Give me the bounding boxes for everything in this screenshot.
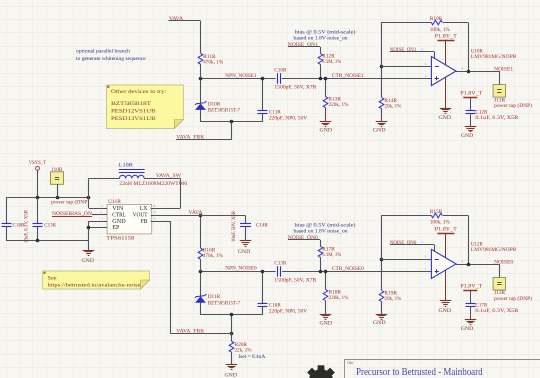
svg-text:TPS61158: TPS61158 bbox=[106, 236, 134, 242]
svg-text:3: 3 bbox=[424, 62, 426, 66]
svg-text:220k, 1%: 220k, 1% bbox=[329, 102, 350, 108]
svg-text:NOISE_ON1: NOISE_ON1 bbox=[390, 47, 417, 53]
svg-text:10uF, 6.3V, X5R: 10uF, 6.3V, X5R bbox=[25, 209, 30, 243]
svg-text:22k, 1%: 22k, 1% bbox=[235, 347, 253, 353]
svg-text:NOISE1: NOISE1 bbox=[494, 67, 513, 73]
svg-text:BZT585B18T: BZT585B18T bbox=[111, 101, 152, 107]
svg-text:NPN_NOISE1: NPN_NOISE1 bbox=[225, 73, 257, 79]
svg-text:5.1M, 1%: 5.1M, 1% bbox=[322, 252, 342, 258]
svg-text:U11R: U11R bbox=[108, 199, 121, 205]
svg-text:based on 1.8V noise_on: based on 1.8V noise_on bbox=[294, 228, 349, 234]
svg-text:P1.8V_T: P1.8V_T bbox=[460, 283, 483, 289]
svg-text:Precursor to Betrusted - Mainb: Precursor to Betrusted - Mainboard bbox=[356, 367, 483, 378]
svg-text:GND: GND bbox=[320, 320, 333, 326]
svg-text:D11R: D11R bbox=[208, 294, 221, 300]
svg-text:2: 2 bbox=[101, 204, 103, 208]
svg-text:GND: GND bbox=[461, 133, 474, 139]
svg-text:5: 5 bbox=[154, 210, 156, 214]
svg-text:1: 1 bbox=[424, 74, 426, 78]
svg-text:GND: GND bbox=[112, 219, 125, 225]
svg-text:VSYS_T: VSYS_T bbox=[29, 160, 47, 166]
svg-text:R15R: R15R bbox=[430, 209, 443, 215]
svg-text:5.1M, 1%: 5.1M, 1% bbox=[322, 59, 342, 65]
svg-text:power tap (DNP): power tap (DNP) bbox=[494, 102, 532, 109]
svg-text:optional parallel branch: optional parallel branch bbox=[76, 49, 130, 55]
svg-text:GND: GND bbox=[439, 115, 452, 121]
svg-text:power tap (DNP): power tap (DNP) bbox=[51, 199, 89, 206]
svg-text:C14R: C14R bbox=[256, 222, 268, 228]
svg-text:Other devices to try:: Other devices to try: bbox=[111, 89, 167, 95]
svg-text:PESD13VS1UB: PESD13VS1UB bbox=[111, 116, 156, 122]
svg-text:470k, 1%: 470k, 1% bbox=[203, 253, 224, 259]
svg-text:20k, 1%: 20k, 1% bbox=[384, 103, 402, 109]
svg-text:to generate whitening sequence: to generate whitening sequence bbox=[76, 56, 146, 62]
svg-text:5: 5 bbox=[422, 47, 424, 51]
svg-text:C13K: C13K bbox=[44, 223, 56, 229]
svg-text:EP: EP bbox=[112, 225, 119, 231]
svg-text:GND: GND bbox=[373, 127, 386, 133]
svg-text:NOISE_ON1: NOISE_ON1 bbox=[288, 42, 318, 48]
svg-text:GND: GND bbox=[373, 320, 386, 326]
svg-text:R10R: R10R bbox=[430, 16, 443, 22]
svg-text:NOISE0: NOISE0 bbox=[494, 260, 513, 266]
svg-text:VAVA: VAVA bbox=[189, 210, 203, 216]
svg-text:220pF, NP0, 50V: 220pF, NP0, 50V bbox=[269, 308, 308, 314]
svg-text:100k, 1%: 100k, 1% bbox=[430, 27, 451, 33]
svg-text:LMV981MG/NOPB: LMV981MG/NOPB bbox=[471, 247, 517, 253]
svg-text:GND: GND bbox=[82, 258, 95, 264]
svg-text:3: 3 bbox=[424, 255, 426, 259]
svg-text:4: 4 bbox=[154, 216, 156, 220]
svg-text:0.1uF, 6.3V, X5R: 0.1uF, 6.3V, X5R bbox=[475, 308, 519, 314]
svg-text:PESD12VS1UB: PESD12VS1UB bbox=[111, 109, 156, 115]
svg-text:100k, 1%: 100k, 1% bbox=[430, 220, 451, 226]
svg-text:CTR_NOISE0: CTR_NOISE0 bbox=[332, 266, 364, 272]
svg-text:220k, 1%: 220k, 1% bbox=[329, 295, 350, 301]
svg-text:Title: Title bbox=[347, 361, 353, 365]
svg-text:0.1uF, 6.3V, X5R: 0.1uF, 6.3V, X5R bbox=[475, 115, 519, 121]
svg-text:1: 1 bbox=[101, 210, 103, 214]
svg-text:GND: GND bbox=[225, 373, 238, 378]
svg-text:5: 5 bbox=[422, 240, 424, 244]
svg-text:22nH MLZ1608M220WT000: 22nH MLZ1608M220WT000 bbox=[119, 181, 187, 187]
svg-text:CTRL: CTRL bbox=[112, 213, 126, 219]
svg-text:LX: LX bbox=[140, 206, 149, 212]
svg-text:GND: GND bbox=[461, 326, 474, 332]
svg-text:1500pF, 50V, X7R: 1500pF, 50V, X7R bbox=[274, 277, 317, 283]
svg-text:C13R: C13R bbox=[274, 260, 286, 266]
svg-text:See: See bbox=[48, 275, 58, 281]
svg-text:P1.8V_T: P1.8V_T bbox=[435, 34, 458, 40]
svg-text:6: 6 bbox=[154, 204, 156, 208]
svg-text:220pF, NP0, 50V: 220pF, NP0, 50V bbox=[269, 116, 308, 122]
svg-text:10uF, 50V, X5R: 10uF, 50V, X5R bbox=[232, 210, 237, 242]
svg-text:P1.8V_T: P1.8V_T bbox=[435, 226, 458, 232]
svg-text:470k, 1%: 470k, 1% bbox=[203, 60, 224, 66]
svg-text:1500pF, 50V, X7R: 1500pF, 50V, X7R bbox=[274, 85, 317, 91]
svg-text:C18R: C18R bbox=[13, 223, 25, 229]
svg-text:4: 4 bbox=[461, 260, 463, 264]
svg-text:VIN: VIN bbox=[112, 206, 124, 212]
svg-text:L10R: L10R bbox=[119, 163, 133, 169]
svg-text:GND: GND bbox=[439, 308, 452, 314]
svg-text:NPN_NOISE0: NPN_NOISE0 bbox=[225, 266, 257, 272]
svg-text:FB: FB bbox=[141, 219, 148, 225]
svg-text:D10R: D10R bbox=[208, 101, 221, 107]
svg-text:power tap (DNP): power tap (DNP) bbox=[494, 295, 532, 302]
svg-text:GND: GND bbox=[320, 128, 333, 134]
svg-text:20k, 1%: 20k, 1% bbox=[384, 296, 402, 302]
svg-text:C10R: C10R bbox=[274, 68, 286, 74]
svg-text:VOUT: VOUT bbox=[133, 213, 148, 219]
svg-text:BZT585B15T-7: BZT585B15T-7 bbox=[208, 300, 241, 306]
svg-text:Iset = 8.4uA: Iset = 8.4uA bbox=[239, 354, 266, 360]
svg-text:GND: GND bbox=[238, 249, 251, 255]
svg-text:4: 4 bbox=[461, 67, 463, 71]
svg-text:BZT585B15T-7: BZT585B15T-7 bbox=[208, 108, 241, 114]
svg-text:P1.8V_T: P1.8V_T bbox=[460, 91, 483, 97]
svg-text:NOISE_ON0: NOISE_ON0 bbox=[288, 235, 318, 241]
svg-text:3: 3 bbox=[101, 216, 103, 220]
svg-text:LMV981MG/NOPB: LMV981MG/NOPB bbox=[471, 54, 517, 60]
svg-text:CTR_NOISE1: CTR_NOISE1 bbox=[332, 73, 364, 79]
svg-text:https://betrusted.io/avalanche: https://betrusted.io/avalanche-noise bbox=[48, 282, 142, 288]
svg-text:1: 1 bbox=[424, 267, 426, 271]
svg-text:based on 1.8V noise_on: based on 1.8V noise_on bbox=[294, 36, 349, 42]
